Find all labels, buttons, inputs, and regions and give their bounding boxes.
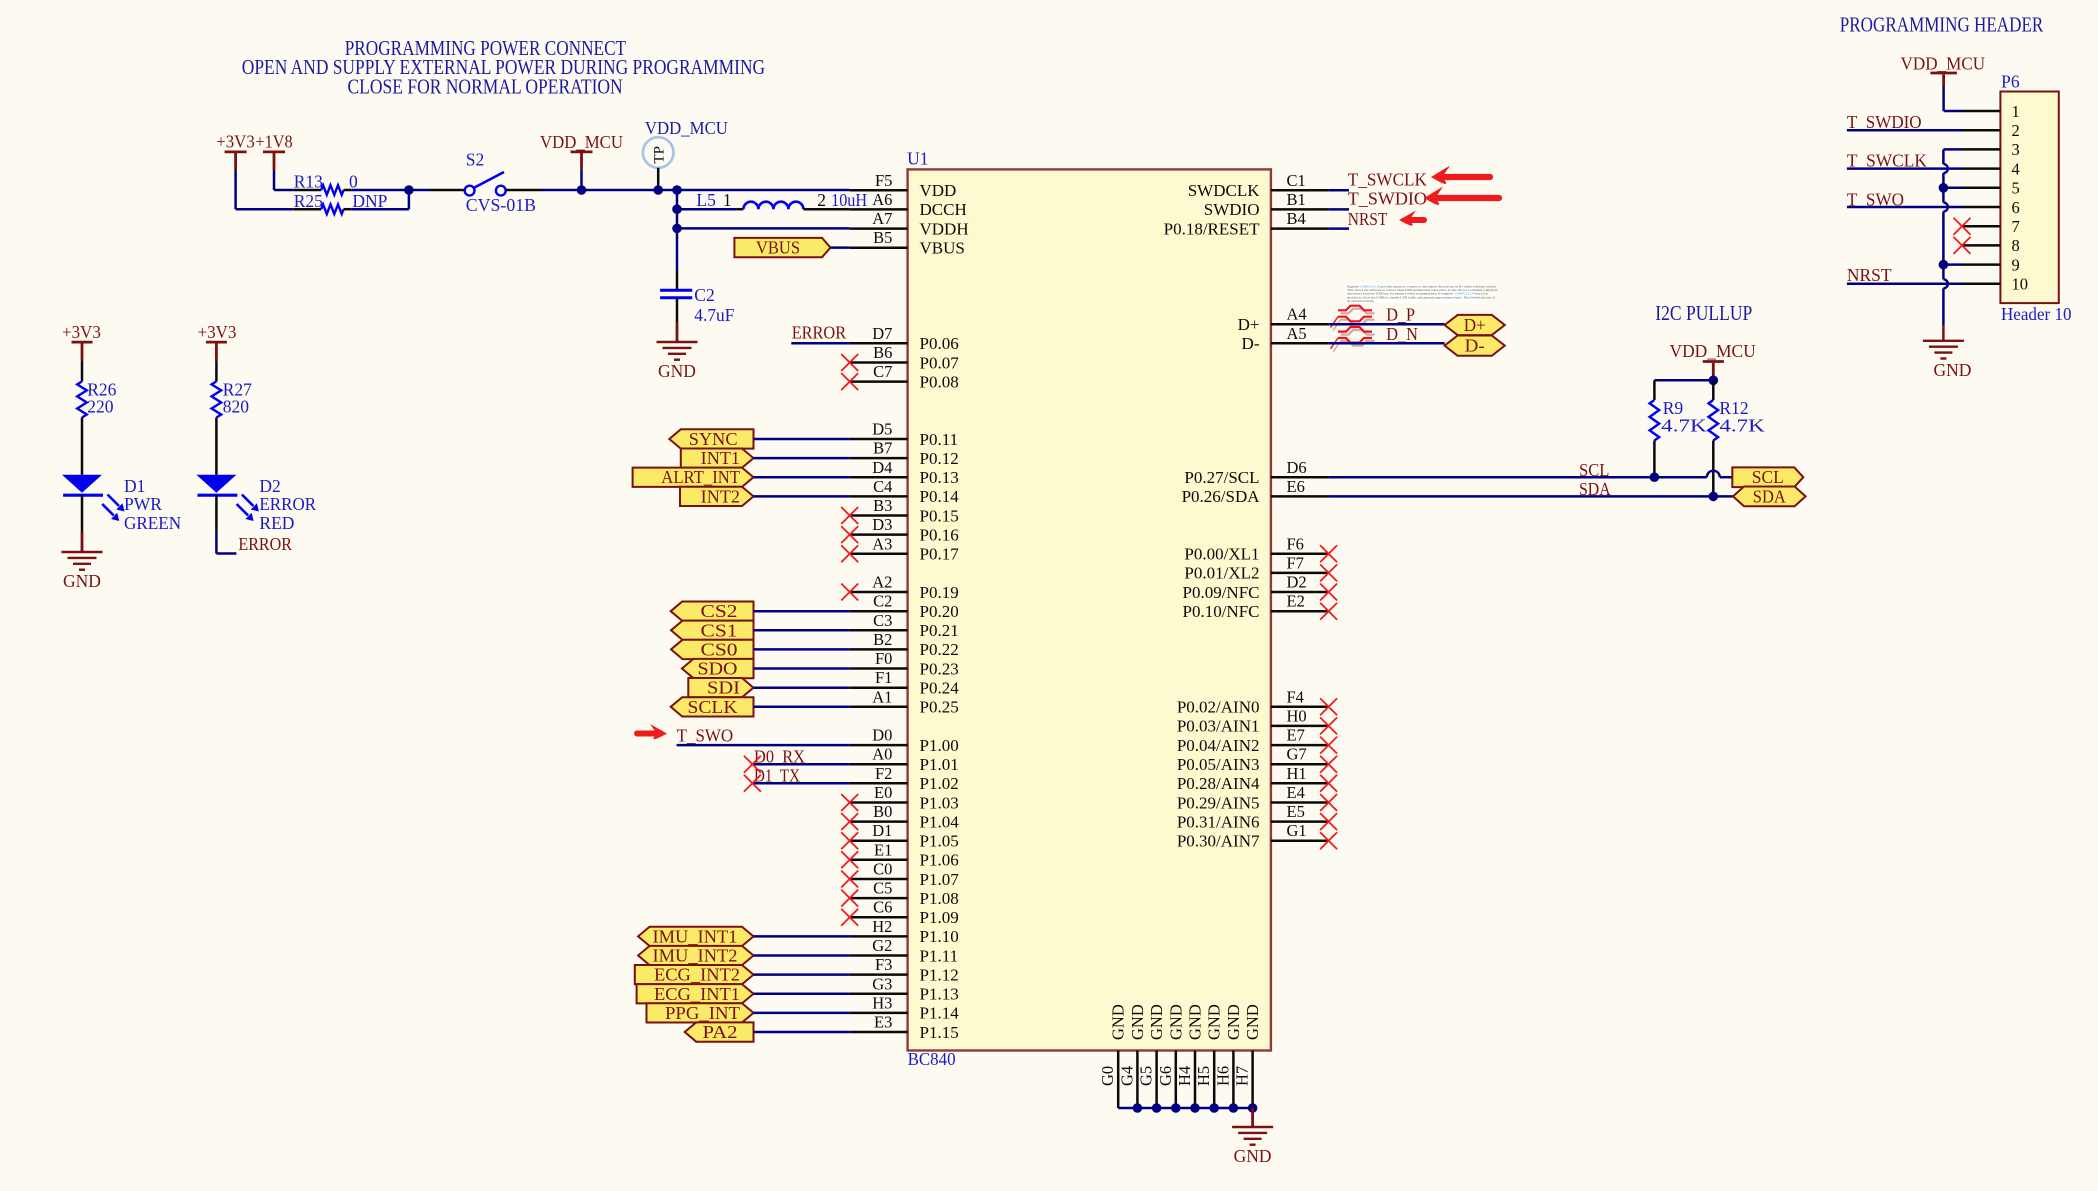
- wire PPG_INT to pin: [754, 1012, 850, 1015]
- junction GND bus: [1152, 1103, 1162, 1113]
- svg-text:D_N: D_N: [1386, 324, 1418, 344]
- svg-text:GND: GND: [1243, 1004, 1262, 1040]
- svg-text:1: 1: [2012, 102, 2020, 121]
- inductor L5 10uH: [696, 190, 867, 210]
- svg-text:D+: D+: [1464, 315, 1486, 335]
- svg-text:T_SWDIO: T_SWDIO: [1847, 112, 1922, 132]
- ground GND at U1: [1232, 1108, 1273, 1166]
- svg-text:C2: C2: [873, 592, 892, 611]
- svg-text:6: 6: [2012, 198, 2020, 217]
- svg-text:+3V3: +3V3: [198, 322, 237, 342]
- pin F5 (VDD) left: [850, 171, 957, 200]
- svg-text:P0.01/XL2: P0.01/XL2: [1184, 564, 1259, 583]
- svg-text:B4: B4: [1287, 209, 1306, 228]
- pin A3 (P0.17) left: [850, 534, 960, 563]
- svg-text:G0: G0: [1098, 1066, 1117, 1086]
- pin G5 (GND) bottom: [1137, 1004, 1167, 1108]
- svg-text:P1.12: P1.12: [920, 965, 959, 984]
- svg-text:A6: A6: [872, 190, 892, 209]
- svg-text:NRST: NRST: [1348, 209, 1388, 229]
- svg-text:P0.26/SDA: P0.26/SDA: [1182, 487, 1261, 506]
- svg-text:P0.31/AIN6: P0.31/AIN6: [1177, 812, 1260, 831]
- wire hop over pin10: [1943, 279, 1948, 288]
- wire SDA from P0.26: [1329, 495, 1733, 498]
- junction GND bus: [1171, 1103, 1181, 1113]
- svg-text:F2: F2: [875, 764, 892, 783]
- pin 8 of P6: [1962, 236, 2020, 255]
- svg-text:INT1: INT1: [701, 448, 740, 468]
- svg-text:GND: GND: [1147, 1004, 1166, 1040]
- svg-text:220: 220: [87, 396, 114, 416]
- svg-text:1: 1: [723, 190, 732, 210]
- svg-text:GND: GND: [1186, 1004, 1205, 1040]
- svg-text:P0.16: P0.16: [920, 525, 959, 544]
- testpoint TP: [643, 137, 674, 190]
- svg-text:BC840: BC840: [908, 1049, 956, 1069]
- no-connect X at pin E0: [841, 794, 858, 811]
- svg-text:G2: G2: [872, 936, 892, 955]
- net label VDD_MCU at TP: [645, 118, 728, 138]
- net label D_P: [1386, 304, 1415, 324]
- pin 6 of P6: [1962, 198, 2020, 217]
- no-connect X at pin8: [1954, 237, 1971, 254]
- no-connect X at pin D3: [841, 526, 858, 543]
- svg-text:F0: F0: [875, 649, 892, 668]
- pin F0 (P0.23) left: [850, 649, 959, 678]
- svg-text:P0.23: P0.23: [920, 659, 959, 678]
- wire pin5 stub: [1943, 187, 1962, 190]
- svg-text:SDA: SDA: [1753, 486, 1786, 506]
- svg-text:C4: C4: [873, 477, 892, 496]
- port SYNC: [669, 429, 753, 449]
- svg-text:G4: G4: [1117, 1066, 1136, 1086]
- no-connect X at pin B0: [841, 813, 858, 830]
- svg-text:9: 9: [2012, 255, 2020, 274]
- svg-text:E7: E7: [1287, 726, 1305, 745]
- svg-text:SWDIO: SWDIO: [1204, 200, 1260, 219]
- annotation arrow at NRST: [1399, 211, 1424, 226]
- svg-text:P1.03: P1.03: [920, 793, 959, 812]
- svg-text:VBUS: VBUS: [920, 239, 965, 258]
- port ECG_INT2: [635, 965, 754, 985]
- wire INT1 to pin: [754, 457, 850, 460]
- svg-text:CS1: CS1: [701, 620, 738, 640]
- svg-text:P0.25: P0.25: [920, 698, 959, 717]
- svg-text:R13: R13: [294, 171, 323, 191]
- net label T_SWO: [677, 726, 734, 746]
- capacitor C2 4.7uF: [660, 285, 735, 325]
- no-connect X at pin G1: [1320, 832, 1337, 849]
- resistor R26 220: [77, 360, 116, 417]
- wire SYNC to pin: [754, 438, 850, 441]
- svg-text:E0: E0: [874, 783, 892, 802]
- port IMU_INT1: [638, 926, 753, 946]
- svg-text:U1: U1: [907, 149, 928, 169]
- svg-text:D_P: D_P: [1386, 304, 1415, 324]
- svg-text:D3: D3: [872, 515, 892, 534]
- junction TP: [653, 185, 663, 195]
- svg-text:+1V8: +1V8: [255, 132, 292, 152]
- svg-text:P0.10/NFC: P0.10/NFC: [1183, 602, 1260, 621]
- pin E3 (P1.15) left: [850, 1013, 959, 1042]
- wire R27 to D2: [215, 418, 218, 475]
- svg-text:A5: A5: [1287, 324, 1307, 343]
- svg-text:C7: C7: [873, 362, 892, 381]
- svg-text:P0.04/AIN2: P0.04/AIN2: [1177, 736, 1260, 755]
- pin C0 (P1.07) left: [850, 860, 960, 889]
- svg-text:C6: C6: [873, 898, 892, 917]
- svg-text:B2: B2: [873, 630, 892, 649]
- pin D5 (P0.11) left: [850, 420, 958, 449]
- junction VDDH branch: [672, 224, 682, 234]
- net label SDA: [1579, 479, 1611, 499]
- pin B4 (P0.18/RESET) right: [1164, 209, 1329, 238]
- svg-text:ECG_INT2: ECG_INT2: [654, 965, 740, 985]
- title note: programming power connect: [242, 36, 765, 98]
- pin B0 (P1.04) left: [850, 802, 960, 831]
- pin H2 (P1.10) left: [850, 917, 959, 946]
- junction R13-R25: [404, 185, 414, 195]
- pin E0 (P1.03) left: [850, 783, 959, 812]
- pin D7 (P0.06) left: [850, 324, 959, 353]
- svg-text:F1: F1: [875, 668, 892, 687]
- pin A7 (VDDH) left: [850, 209, 969, 238]
- svg-text:I2C PULLUP: I2C PULLUP: [1655, 301, 1752, 325]
- svg-text:RED: RED: [259, 513, 294, 533]
- svg-text:D0: D0: [872, 726, 892, 745]
- svg-text:F4: F4: [1287, 687, 1304, 706]
- op IC U1 BC840 body: [907, 149, 1271, 1070]
- diff pair directive D_P: [1331, 306, 1375, 331]
- svg-text:D-: D-: [1242, 334, 1260, 353]
- svg-text:2: 2: [2012, 121, 2020, 140]
- svg-text:SCL: SCL: [1579, 460, 1609, 480]
- svg-text:P0.29/AIN5: P0.29/AIN5: [1177, 793, 1260, 812]
- svg-text:CS2: CS2: [701, 601, 738, 621]
- pin A5 (D-) right: [1242, 324, 1329, 353]
- pin D4 (P0.13) left: [850, 458, 959, 487]
- wire IMU_INT1 to pin: [754, 935, 850, 938]
- no-connect X at pin E4: [1320, 794, 1337, 811]
- svg-text:GREEN: GREEN: [124, 513, 181, 533]
- wire D0_RX to P1.01: [752, 763, 849, 766]
- annotation arrow at T_SWDIO: [1424, 187, 1499, 205]
- port ECG_INT1: [637, 984, 754, 1004]
- annotation arrow at T_SWCLK: [1431, 166, 1490, 184]
- wire ECG_INT1 to pin: [754, 993, 850, 996]
- port SCLK: [671, 697, 754, 717]
- wire INT2 to pin: [754, 495, 850, 498]
- wire D+ to port: [1329, 323, 1445, 326]
- net label T_SWDIO: [1348, 188, 1427, 208]
- pin H5 (GND) bottom: [1194, 1004, 1224, 1108]
- junction SCL-R9: [1650, 472, 1660, 482]
- no-connect X at pin A3: [841, 545, 858, 562]
- wire ERROR to P0.06: [791, 342, 849, 345]
- resistor R9 4.7K: [1650, 398, 1707, 477]
- pin 5 of P6: [1962, 179, 2020, 198]
- no-connect X at pin C7: [841, 373, 858, 390]
- no-connect X at pin H1: [1320, 775, 1337, 792]
- pin A2 (P0.19) left: [850, 573, 959, 602]
- resistor R27 820: [212, 360, 253, 417]
- svg-text:VBUS: VBUS: [756, 238, 800, 258]
- svg-text:F5: F5: [875, 171, 892, 190]
- pin E2 (P0.10/NFC) right: [1183, 592, 1329, 621]
- svg-text:A1: A1: [872, 687, 892, 706]
- pin C7 (P0.08) left: [850, 362, 959, 391]
- pin F4 (P0.02/AIN0) right: [1177, 687, 1329, 716]
- svg-text:G7: G7: [1287, 745, 1307, 764]
- port SCL: [1732, 467, 1803, 487]
- pin E5 (P0.31/AIN6) right: [1177, 802, 1329, 831]
- wire junction to S2: [409, 189, 429, 192]
- svg-text:A7: A7: [872, 209, 892, 228]
- svg-text:B1: B1: [1287, 190, 1306, 209]
- wire SDI to pin: [754, 686, 850, 689]
- pin 4 of P6: [1962, 159, 2020, 178]
- power +3V3 at R27: [198, 322, 237, 360]
- svg-text:ALRT_INT: ALRT_INT: [661, 467, 740, 487]
- svg-text:C5: C5: [873, 879, 892, 898]
- wire hop over pin6: [1943, 203, 1948, 212]
- wire SCLK to pin: [754, 706, 850, 709]
- svg-text:P0.19: P0.19: [920, 583, 959, 602]
- svg-text:4.7K: 4.7K: [1661, 416, 1707, 436]
- svg-text:P0.17: P0.17: [920, 545, 960, 564]
- svg-text:TP: TP: [652, 146, 668, 164]
- port CS1: [671, 620, 754, 640]
- ground GND at C2: [657, 322, 698, 381]
- svg-text:PA2: PA2: [703, 1022, 738, 1042]
- power VDD_MCU at I2C: [1670, 341, 1757, 380]
- svg-text:VDD_MCU: VDD_MCU: [1901, 54, 1986, 74]
- svg-text:P0.13: P0.13: [920, 468, 959, 487]
- svg-text:D7: D7: [872, 324, 892, 343]
- ground GND at D1: [62, 552, 103, 591]
- pin G2 (P1.11) left: [850, 936, 958, 965]
- svg-text:T_SWCLK: T_SWCLK: [1348, 169, 1427, 189]
- svg-text:P1.11: P1.11: [920, 946, 959, 965]
- no-connect X at pin F4: [1320, 698, 1337, 715]
- svg-text:C0: C0: [873, 860, 892, 879]
- svg-text:ERROR: ERROR: [792, 322, 847, 342]
- pin 2 of P6: [1962, 121, 2020, 140]
- pin C2 (P0.20) left: [850, 592, 959, 621]
- svg-text:G5: G5: [1137, 1066, 1156, 1086]
- svg-text:P0.24: P0.24: [920, 679, 960, 698]
- wire VDD down to C2: [676, 228, 679, 289]
- wire SDO to pin: [754, 667, 850, 670]
- svg-text:P0.02/AIN0: P0.02/AIN0: [1177, 698, 1260, 717]
- no-connect X at pin H0: [1320, 717, 1337, 734]
- svg-text:A4: A4: [1287, 305, 1307, 324]
- net label T_SWO at header: [1847, 189, 1904, 209]
- svg-text:PROGRAMMING HEADER: PROGRAMMING HEADER: [1840, 13, 2044, 37]
- svg-text:IMU_INT1: IMU_INT1: [653, 926, 738, 946]
- junction GND bus: [1229, 1103, 1239, 1113]
- svg-text:an external pull-up.: an external pull-up.: [1347, 299, 1374, 303]
- svg-text:VDD_MCU: VDD_MCU: [1670, 341, 1757, 361]
- junction VDD_MCU I2C: [1709, 376, 1719, 386]
- svg-text:P1.13: P1.13: [920, 985, 959, 1004]
- svg-text:P0.00/XL1: P0.00/XL1: [1184, 545, 1259, 564]
- no-connect X at pin E5: [1320, 813, 1337, 830]
- pin H0 (P0.03/AIN1) right: [1177, 706, 1329, 735]
- svg-text:H7: H7: [1233, 1066, 1252, 1086]
- junction GND bus: [1209, 1103, 1219, 1113]
- pin H4 (GND) bottom: [1175, 1004, 1205, 1108]
- svg-text:P0.22: P0.22: [920, 640, 959, 659]
- label D1 PWR GREEN: [124, 476, 181, 533]
- svg-text:P1.10: P1.10: [920, 927, 959, 946]
- pin 9 of P6: [1962, 255, 2020, 274]
- svg-text:P0.09/NFC: P0.09/NFC: [1183, 583, 1260, 602]
- svg-text:NRST: NRST: [1847, 265, 1892, 285]
- pin B2 (P0.22) left: [850, 630, 959, 659]
- pin 1 of P6: [1962, 102, 2020, 121]
- net label SCL: [1579, 460, 1609, 480]
- svg-text:T_SWO: T_SWO: [677, 726, 734, 746]
- no-connect X at pin E1: [841, 851, 858, 868]
- svg-text:G3: G3: [872, 974, 892, 993]
- svg-text:D+: D+: [1238, 315, 1260, 334]
- power +3V3 (top left): [216, 132, 255, 171]
- port CS2: [671, 601, 754, 621]
- wire T_SWCLK to pin4: [1847, 167, 1962, 170]
- wire R13/R25 join: [351, 190, 409, 209]
- wire T_SWO to pin6: [1847, 206, 1962, 209]
- port INT1: [681, 448, 754, 468]
- svg-text:H5: H5: [1194, 1066, 1213, 1086]
- svg-text:D4: D4: [872, 458, 892, 477]
- LED D2 emission arrows: [237, 495, 259, 522]
- no-connect X at pin D1: [841, 832, 858, 849]
- svg-text:P1.02: P1.02: [920, 774, 959, 793]
- port ALRT_INT: [633, 467, 754, 487]
- svg-text:INT2: INT2: [701, 486, 740, 506]
- wire R26 to D1: [81, 418, 84, 475]
- svg-text:820: 820: [223, 396, 250, 416]
- svg-text:P1.14: P1.14: [920, 1004, 960, 1023]
- pin C1 (SWDCLK) right: [1188, 171, 1329, 200]
- svg-text:4.7uF: 4.7uF: [694, 305, 734, 325]
- svg-text:P1.04: P1.04: [920, 812, 960, 831]
- port IMU_INT2: [638, 946, 753, 966]
- svg-text:D1: D1: [872, 821, 892, 840]
- wire VDD_MCU to pin1: [1944, 86, 1962, 111]
- pin D6 (P0.27/SCL) right: [1184, 458, 1328, 487]
- pin G6 (GND) bottom: [1156, 1004, 1186, 1108]
- LED D1 PWR GREEN: [62, 475, 103, 495]
- junction VDD_MCU: [577, 185, 587, 195]
- svg-text:Header 10: Header 10: [2001, 304, 2072, 324]
- port PPG_INT: [647, 1003, 754, 1023]
- no-connect X at pin B3: [841, 507, 858, 524]
- no-connect X at pin B6: [841, 354, 858, 371]
- pin F3 (P1.12) left: [850, 955, 959, 984]
- svg-text:P0.08: P0.08: [920, 372, 959, 391]
- junction GND bus: [1133, 1103, 1143, 1113]
- port SDO: [682, 659, 754, 679]
- wire PA2 to pin: [754, 1031, 850, 1034]
- wire +1V8 to R13: [274, 170, 294, 190]
- svg-text:T_SWDIO: T_SWDIO: [1348, 188, 1427, 208]
- svg-text:P1.08: P1.08: [920, 889, 959, 908]
- wire D1_TX to P1.02: [752, 782, 849, 785]
- pin D2 (P0.09/NFC) right: [1183, 573, 1329, 602]
- wire T_SWO to P1.00: [677, 744, 850, 747]
- no-ERC X at D0_RX wire: [744, 756, 761, 773]
- svg-text:VDDH: VDDH: [920, 219, 969, 238]
- pin E6 (P0.26/SDA) right: [1182, 477, 1329, 506]
- svg-text:F6: F6: [1287, 534, 1304, 553]
- wire ECG_INT2 to pin: [754, 973, 850, 976]
- svg-text:DCCH: DCCH: [920, 200, 967, 219]
- port INT2: [680, 486, 754, 506]
- wire T_SWCLK: [1329, 189, 1349, 192]
- svg-text:GND: GND: [63, 571, 101, 591]
- pin C5 (P1.08) left: [850, 879, 959, 908]
- port D+: [1445, 315, 1505, 335]
- no-connect X at pin C0: [841, 871, 858, 888]
- wire NRST at B4: [1329, 227, 1349, 230]
- svg-text:ECG_INT1: ECG_INT1: [654, 984, 740, 1004]
- net label NRST at B4: [1348, 209, 1388, 229]
- power +1V8: [255, 132, 292, 171]
- power +3V3 at R26: [62, 322, 101, 360]
- pin E7 (P0.04/AIN2) right: [1177, 726, 1329, 755]
- svg-text:P0.11: P0.11: [920, 430, 959, 449]
- pin B6 (P0.07) left: [850, 343, 960, 372]
- svg-text:E1: E1: [874, 840, 892, 859]
- svg-text:GND: GND: [1224, 1004, 1243, 1040]
- pin E4 (P0.29/AIN5) right: [1177, 783, 1329, 812]
- svg-text:GND: GND: [1128, 1004, 1147, 1040]
- svg-text:SCL: SCL: [1752, 467, 1784, 487]
- svg-text:GND: GND: [1205, 1004, 1224, 1040]
- svg-text:5: 5: [2012, 179, 2020, 198]
- svg-text:P0.07: P0.07: [920, 353, 960, 372]
- net label NRST at header: [1847, 265, 1892, 285]
- wire CS2 to pin: [754, 610, 850, 613]
- svg-text:P0.06: P0.06: [920, 334, 959, 353]
- svg-text:A3: A3: [872, 534, 892, 553]
- wire D- to port: [1329, 342, 1445, 345]
- svg-text:SYNC: SYNC: [689, 429, 738, 449]
- pin C4 (P0.14) left: [850, 477, 960, 506]
- svg-text:VDD_MCU: VDD_MCU: [540, 132, 623, 152]
- svg-text:SDI: SDI: [707, 678, 740, 698]
- svg-text:H0: H0: [1287, 706, 1307, 725]
- wire S2 to VDD_MCU node: [542, 189, 850, 192]
- annotation arrow at T_SWO: [637, 724, 667, 739]
- svg-text:L5: L5: [696, 190, 716, 210]
- svg-text:P1.15: P1.15: [920, 1023, 959, 1042]
- svg-text:P0.27/SCL: P0.27/SCL: [1184, 468, 1259, 487]
- svg-text:P1.06: P1.06: [920, 851, 959, 870]
- svg-text:B0: B0: [873, 802, 892, 821]
- no-connect X at pin A2: [841, 584, 858, 601]
- svg-text:2: 2: [817, 190, 826, 210]
- pin G3 (P1.13) left: [850, 974, 959, 1003]
- wire to L5: [677, 208, 736, 211]
- svg-text:H2: H2: [872, 917, 892, 936]
- svg-text:P0.14: P0.14: [920, 487, 960, 506]
- pin C3 (P0.21) left: [850, 611, 959, 640]
- svg-text:H6: H6: [1213, 1066, 1232, 1086]
- net label ERROR: [792, 322, 847, 342]
